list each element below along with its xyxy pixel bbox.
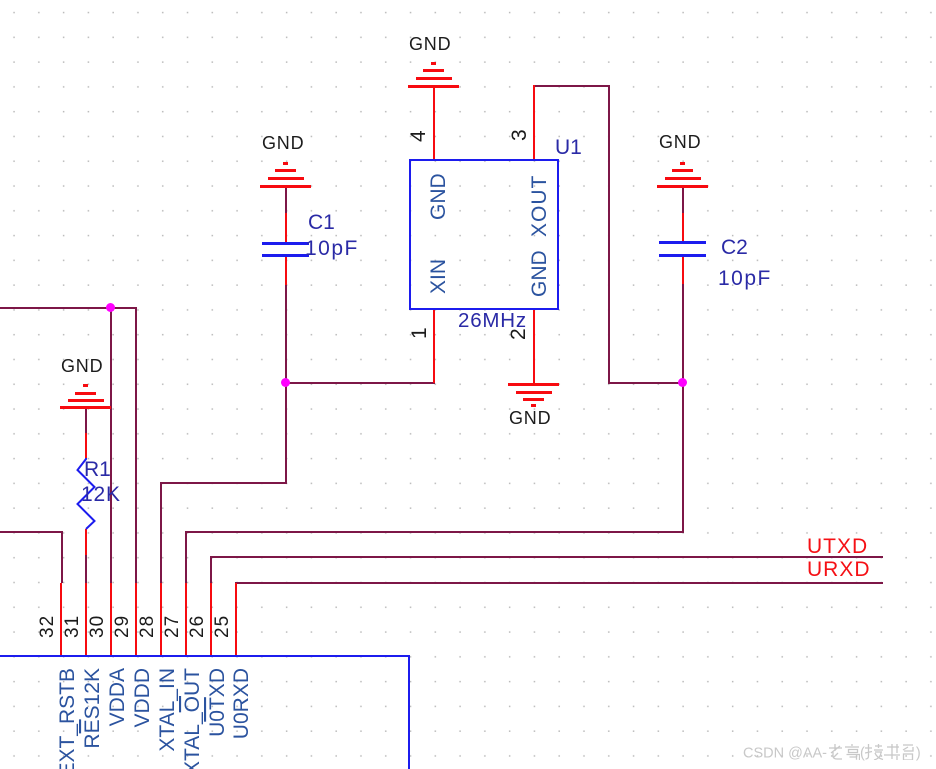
svg-text:4: 4 <box>407 130 430 142</box>
svg-text:1: 1 <box>408 327 431 339</box>
svg-text:VDDD: VDDD <box>131 668 154 728</box>
svg-text:U0RXD: U0RXD <box>230 668 253 739</box>
svg-text:30: 30 <box>87 615 108 638</box>
svg-text:3: 3 <box>508 129 531 141</box>
svg-text:25: 25 <box>212 615 233 638</box>
svg-text:29: 29 <box>112 615 133 638</box>
svg-text:EXT_RSTB: EXT_RSTB <box>56 668 79 769</box>
svg-text:RES12K: RES12K <box>81 668 104 749</box>
svg-text:2: 2 <box>507 328 530 340</box>
svg-text:XIN: XIN <box>427 259 450 294</box>
svg-text:U0TXD: U0TXD <box>206 668 229 737</box>
svg-text:26: 26 <box>187 615 208 638</box>
svg-text:32: 32 <box>37 615 58 638</box>
svg-text:XOUT: XOUT <box>528 175 551 237</box>
svg-text:GND: GND <box>427 173 450 220</box>
svg-text:GND: GND <box>528 250 551 297</box>
svg-text:VDDA: VDDA <box>106 668 129 726</box>
svg-text:27: 27 <box>162 615 183 638</box>
svg-text:31: 31 <box>62 615 83 638</box>
svg-text:XTAL_IN: XTAL_IN <box>156 668 179 752</box>
svg-text:28: 28 <box>137 615 158 638</box>
svg-text:XTAL_OUT: XTAL_OUT <box>181 668 204 769</box>
